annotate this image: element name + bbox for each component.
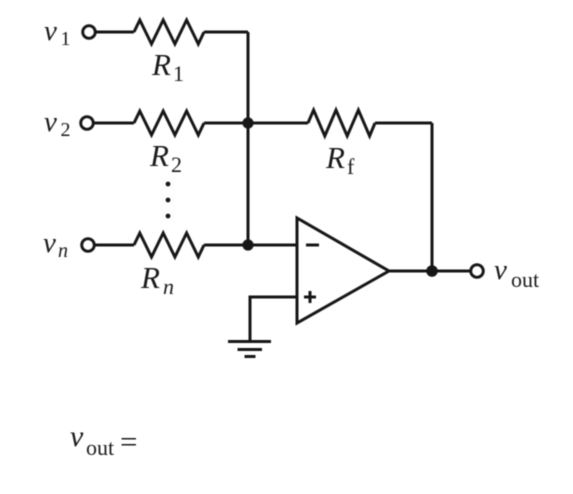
- node output junction: [426, 265, 438, 277]
- svg-text:2: 2: [171, 152, 182, 177]
- op-amp minus sign: [306, 244, 319, 247]
- resistor Rn: [134, 233, 204, 257]
- resistor R2: [134, 111, 204, 135]
- terminal v1 (open circle): [83, 26, 96, 39]
- op-amp plus sign: [304, 291, 316, 303]
- svg-text:v: v: [494, 254, 507, 286]
- wire v1 terminal to R1: [96, 31, 134, 34]
- wire vertical summing bus: [247, 32, 250, 245]
- wire non-inverting input to ground: [250, 297, 297, 341]
- svg-text:2: 2: [61, 119, 71, 141]
- wire summing node to Rf: [248, 122, 308, 125]
- svg-text:=: =: [120, 424, 137, 459]
- svg-text:R: R: [151, 47, 171, 82]
- formula vout =: [70, 420, 137, 460]
- svg-text:v: v: [44, 15, 57, 47]
- ground: [228, 342, 271, 357]
- wire Rf to feedback corner: [375, 122, 432, 125]
- node inverting input junction (row n): [242, 239, 253, 250]
- wire R1 to top corner: [204, 31, 248, 34]
- resistor Rf: [308, 110, 375, 136]
- wire op-amp output: [389, 270, 471, 273]
- terminal v2 (open circle): [81, 117, 94, 130]
- node summing junction (row 2): [242, 117, 253, 128]
- wire vn terminal to Rn: [95, 244, 134, 247]
- ellipsis dots between R2 and Rn: [166, 182, 171, 187]
- wire feedback vertical to output node: [431, 123, 434, 271]
- svg-text:1: 1: [61, 28, 71, 50]
- svg-text:f: f: [347, 154, 355, 179]
- wire Rn to op-amp inverting input: [204, 244, 297, 247]
- resistor R1: [134, 20, 204, 44]
- terminal vout (open circle): [471, 265, 484, 278]
- svg-text:out: out: [511, 267, 539, 292]
- svg-text:R: R: [149, 138, 169, 173]
- svg-text:v: v: [70, 420, 84, 453]
- svg-text:R: R: [140, 260, 160, 295]
- wire v2 terminal to R2: [94, 122, 134, 125]
- svg-text:R: R: [325, 140, 345, 175]
- terminal vn (open circle): [82, 239, 95, 252]
- op-amp U1: [297, 218, 389, 323]
- svg-text:v: v: [43, 227, 56, 259]
- svg-text:out: out: [86, 435, 114, 460]
- svg-text:n: n: [163, 274, 174, 299]
- svg-text:v: v: [44, 106, 57, 138]
- svg-text:n: n: [58, 240, 68, 262]
- wire R2 to summing node: [204, 122, 248, 125]
- svg-text:1: 1: [173, 61, 184, 86]
